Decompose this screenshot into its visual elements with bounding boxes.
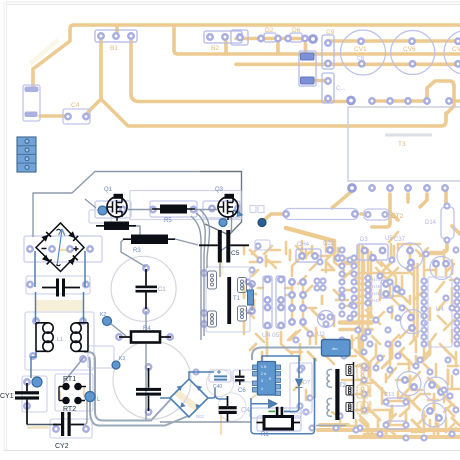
connector B2 pads	[207, 34, 212, 39]
svg-text:H47: H47	[372, 298, 381, 303]
wire trace B2 stub	[224, 42, 228, 54]
svg-text:T3: T3	[398, 141, 406, 148]
svg-text:U3: U3	[317, 332, 325, 338]
svg-text:D7: D7	[303, 380, 310, 386]
capacitor footprint circle big lower	[113, 341, 191, 419]
svg-text:2 d: 2 d	[261, 372, 266, 376]
wire dense extra weave D	[244, 246, 334, 400]
wire trace y101 long left	[131, 38, 345, 102]
svg-text:D3: D3	[360, 237, 368, 243]
wire blue L1 bottom left	[31, 351, 36, 378]
thermistor RT1 RT2 dots	[62, 383, 82, 405]
capacitor footprint circle faint C4	[218, 393, 246, 421]
thermistor RT wires	[59, 387, 86, 401]
transistor Q3	[218, 194, 238, 220]
svg-text:L1: L1	[57, 337, 63, 343]
wire blue Q3 select marks	[233, 210, 241, 215]
resistor R1	[257, 417, 301, 430]
bridge B01 footprint band	[24, 236, 102, 262]
svg-text:C6: C6	[238, 388, 246, 394]
transformer T1 winding boxes	[208, 271, 247, 327]
pad single square footprint	[231, 30, 248, 45]
wire trace CT2 link	[361, 214, 398, 220]
connector CH4 pads	[299, 253, 304, 258]
wash pale yellow B02 center	[176, 392, 198, 409]
svg-text:R1: R1	[261, 432, 269, 438]
svg-text:CH4: CH4	[297, 242, 310, 248]
resistor R2	[96, 222, 136, 231]
transformer T3 body outline	[348, 107, 460, 181]
wire bundle Q to T1 sweep1	[196, 213, 205, 336]
svg-text:CY1: CY1	[0, 393, 14, 400]
wire dense pad column stubs	[340, 258, 354, 340]
wash pale yellow top-left diagonal	[30, 40, 58, 64]
wire trace fork to C4	[87, 99, 101, 116]
wire blue T2 vertical	[314, 358, 316, 398]
resistor RV1 long outline	[284, 209, 358, 220]
capacitor CY1 footprint	[22, 376, 47, 412]
svg-text:U4 05: U4 05	[262, 332, 280, 339]
wire Q3 bottom to V	[231, 215, 233, 233]
wire C2 to lower area	[145, 311, 147, 420]
svg-text:CV1: CV1	[354, 46, 367, 53]
svg-text:3: 3	[261, 379, 263, 383]
wire dense extra weave I	[250, 250, 342, 360]
resistor R3	[123, 235, 175, 245]
wire dense extra weave B	[336, 246, 438, 432]
wire pale CY2 underline	[28, 426, 48, 428]
wire K2 diagonal	[110, 323, 126, 336]
wire trace y42.5 through CV tops	[329, 39, 460, 43]
footprint outline B02 region	[290, 363, 312, 413]
wire dense lower horizontals	[318, 425, 460, 437]
wire dense CH4 cluster	[302, 241, 338, 258]
capacitor C32 pads	[327, 247, 332, 252]
resistor R5	[152, 205, 195, 214]
svg-text:C13: C13	[384, 392, 394, 398]
wire trace T3 pin verticals	[372, 188, 446, 227]
page border left	[4, 2, 7, 451]
IC U5 pads column	[366, 276, 371, 281]
wire trace elbow down to pad row	[427, 81, 454, 114]
wire bundle Q3 down	[219, 237, 229, 253]
capacitor CV6 outline circle	[391, 31, 435, 75]
transistor circle footprint right	[430, 257, 453, 280]
capacitor C1 pads	[143, 265, 148, 270]
svg-text:CV5: CV5	[452, 46, 460, 53]
capacitor CY1	[15, 383, 39, 425]
wire trace diode row y38.5	[236, 37, 316, 41]
IC U3 circle	[318, 311, 335, 328]
capacitor C10 pads	[27, 282, 32, 287]
capacitor footprint circle faint C40	[207, 370, 234, 397]
capacitor C4 outline	[63, 109, 90, 124]
resistor R4	[119, 332, 171, 343]
svg-text:1 N: 1 N	[261, 365, 267, 369]
svg-text:Q3: Q3	[215, 187, 224, 193]
svg-text:D14: D14	[425, 220, 437, 226]
capacitor CV5 outline circle	[444, 31, 460, 75]
svg-text:4: 4	[261, 387, 263, 391]
IC U4 left pad column	[422, 279, 427, 284]
connector J1 blue block	[17, 137, 36, 172]
IC U6 body	[253, 362, 281, 396]
wire trace RV left feed	[263, 214, 285, 221]
resistor R4 pads	[116, 334, 121, 339]
svg-text:Q1: Q1	[104, 187, 113, 193]
svg-text:B2: B2	[211, 45, 219, 52]
wire dense C37 vertical	[389, 232, 460, 280]
footprint mid pads	[381, 280, 393, 298]
wire trace C4 link	[40, 114, 66, 118]
capacitor C4 pads	[65, 114, 70, 119]
transformer T2 left coils	[327, 370, 332, 417]
transformer L1 footprint	[25, 312, 94, 370]
transistor circle footprint low1	[397, 372, 421, 396]
capacitor C2	[136, 368, 161, 411]
capacitor footprint circle big upper	[111, 256, 176, 321]
wire schematic boundary left	[33, 172, 200, 238]
fuse F1 end caps	[25, 87, 39, 93]
svg-text:C32: C32	[323, 241, 335, 247]
pads near B02	[194, 370, 199, 375]
resistor footprint low	[385, 421, 407, 429]
footprint outline Q3 region	[203, 201, 240, 218]
connector B1 pads	[98, 33, 103, 38]
svg-text:CT2: CT2	[391, 213, 404, 220]
wire dense right of U4	[436, 260, 457, 345]
IC U4 outline	[428, 277, 452, 347]
svg-text:U5: U5	[385, 236, 393, 242]
wire blue bridge B01 arrow	[57, 229, 65, 266]
capacitor C9 outline	[322, 35, 334, 69]
bridge B01 pads	[27, 246, 32, 251]
wire dense left DIP verticals	[359, 246, 363, 348]
transformer T1 footprint	[206, 267, 250, 332]
resistor footprint C13	[385, 398, 407, 406]
wire trace RV right diag to big pad	[332, 191, 352, 208]
footprint outline K3 region	[88, 346, 114, 368]
svg-text:T2: T2	[339, 383, 347, 389]
inductor L1 left coil	[36, 323, 53, 352]
wire trace big bundle into dense area	[286, 228, 334, 252]
capacitor C40 blue plates	[214, 376, 227, 379]
wire blue C3 right	[284, 410, 290, 412]
IC U4 right pad column	[455, 279, 460, 284]
svg-text:C4: C4	[241, 407, 250, 414]
wash pale yellow L1 top	[35, 300, 83, 311]
wire thick L1 to B02 lower	[89, 357, 188, 426]
wire dense extra weave E	[244, 242, 334, 342]
inductor L1 right coil	[71, 323, 88, 352]
wire trace pad row y101 right	[372, 99, 460, 103]
thermistor RT footprint	[55, 374, 93, 411]
wire blue diode down to C3	[284, 388, 299, 412]
capacitor CY2 footprint	[50, 419, 92, 438]
wire dense staircase diagonals	[371, 252, 410, 318]
capacitor C6	[235, 370, 245, 385]
svg-text:C1: C1	[158, 287, 166, 293]
capacitor C10	[42, 279, 80, 297]
wire dense mid matrix links	[286, 258, 316, 322]
wire R3 to C1	[121, 239, 146, 267]
capacitor CV6 pads	[409, 39, 414, 44]
svg-text:D2: D2	[265, 27, 274, 34]
transistor circle footprint low3	[422, 403, 446, 427]
wire blue into amp	[251, 396, 315, 434]
capacitor C4 schematic	[219, 396, 237, 422]
wash pale yellow under C5	[219, 252, 224, 276]
capacitor CT2 outline	[364, 209, 389, 220]
mounting pad large	[348, 97, 355, 104]
relay K4 blue pads	[301, 53, 315, 60]
wire dense left DIP horizontals	[340, 320, 372, 325]
node K3 blue dot	[112, 361, 120, 369]
capacitor CY1 pads	[24, 379, 29, 384]
transformer T3 top pad row	[369, 98, 374, 103]
diode D14 pads	[445, 204, 450, 209]
bridge rectifier B01	[36, 223, 84, 272]
transistor Q1	[107, 194, 127, 221]
connector B2 outline	[204, 31, 242, 43]
transistor circle footprint low2	[424, 377, 448, 401]
svg-text:B1: B1	[110, 45, 118, 52]
svg-text:CV6: CV6	[403, 46, 416, 53]
wire blue bridge left down	[34, 251, 36, 287]
wire long bottom	[160, 421, 251, 423]
transformer T1 core bar	[227, 277, 231, 324]
wire bundle Q to T1 sweep2	[200, 210, 210, 268]
footprint outline R5 region	[150, 201, 197, 217]
pad blue rect right of T1	[248, 290, 254, 305]
transistor Q1 pad right	[120, 207, 125, 212]
capacitor C37 pads	[407, 248, 412, 253]
svg-text:K3: K3	[119, 356, 125, 362]
scattered pads right block	[315, 279, 320, 284]
wire thick D7 link	[252, 348, 322, 361]
node K2 blue dot	[103, 317, 112, 326]
transformer T2 core bar	[335, 369, 339, 420]
diode amp blue right	[269, 400, 278, 409]
diode D7 blue box	[322, 340, 351, 357]
wire trace B1 pad down long	[99, 38, 103, 99]
svg-text:RT2: RT2	[63, 406, 76, 413]
wire trace B1 stub up	[115, 25, 119, 36]
svg-text:U4: U4	[436, 307, 444, 313]
capacitor CT2 pads	[366, 212, 371, 217]
wire R2 leads	[96, 226, 140, 236]
node L blue dot	[85, 392, 95, 402]
svg-text:H45: H45	[372, 284, 381, 289]
wire pale trace bridge area	[60, 250, 262, 398]
capacitor C3	[276, 407, 283, 417]
wire Q1 pads link	[85, 199, 117, 221]
capacitor CY2	[53, 412, 84, 436]
transformer T3 bottom pad row	[349, 185, 356, 192]
wire CY area dark	[27, 424, 57, 426]
capacitor C5	[199, 230, 249, 263]
svg-text:CY2: CY2	[55, 443, 69, 450]
transformer L1 pads	[33, 318, 38, 323]
svg-text:CN: CN	[357, 56, 365, 62]
svg-text:C40: C40	[213, 384, 222, 390]
relay K4 outline	[299, 51, 316, 86]
wire trace net1 top-left	[33, 25, 460, 86]
node dense dot	[258, 219, 266, 227]
wire trace D14 down	[447, 226, 460, 250]
transformer T2 right bracket	[353, 362, 355, 419]
wire dense horizontals upper	[340, 244, 446, 273]
wire R5 to Q3	[195, 209, 217, 211]
svg-text:C9: C9	[326, 29, 335, 36]
bridge B02 blue diamond	[170, 379, 208, 417]
wire RT to L1 diagonal	[63, 357, 84, 383]
svg-text:5: 5	[269, 377, 271, 381]
diode D6 outline	[290, 33, 302, 42]
wire dense area verticals	[384, 244, 418, 344]
capacitor C40 polarity	[217, 370, 221, 374]
footprint small pair near Q3	[250, 206, 256, 213]
diode D2 pads	[258, 36, 263, 41]
transformer T2 orange ghost windings	[357, 364, 368, 414]
footprint vertical pair left	[263, 276, 272, 328]
svg-text:C5: C5	[231, 250, 240, 257]
svg-text:R5: R5	[164, 218, 172, 224]
capacitor C37 outline circle	[397, 243, 423, 269]
wire trace y64.3 long	[236, 63, 460, 67]
capacitor CV1 pads	[358, 39, 363, 44]
diode D14 outline	[441, 207, 454, 239]
wire green net	[269, 410, 276, 412]
wire blue B02 top	[189, 372, 214, 379]
page border bottom	[4, 450, 460, 452]
wire trace K relay stub	[306, 44, 328, 81]
capacitor C10 footprint	[26, 276, 90, 294]
footprint outline C3 R1 region	[250, 408, 301, 418]
footprint outline Q1 lower	[89, 210, 111, 223]
node K1 blue dot	[32, 377, 42, 387]
wire dense U5 stubs	[356, 250, 368, 410]
capacitor C1	[136, 269, 158, 309]
wire blue C10 to L1 left	[35, 292, 37, 322]
transformer T3 inner bar	[385, 134, 432, 137]
footprint outlines near C40 C6	[209, 370, 231, 382]
svg-text:RT1: RT1	[63, 376, 76, 383]
connector B1 outline	[95, 30, 137, 42]
capacitor CV1 outline circle	[341, 30, 386, 75]
wire CY2 to L dot	[74, 401, 87, 425]
capacitor C9 pads	[325, 40, 330, 45]
wire dense extra weave C	[328, 336, 458, 436]
transistor Q3 pads	[209, 206, 214, 211]
footprint outline Q1 region	[95, 201, 131, 218]
capacitor C8 pads	[325, 78, 330, 83]
wire blue C10 to L1 right	[83, 292, 85, 322]
capacitor C8 outline	[322, 73, 334, 103]
pad Q1 blue dot	[98, 206, 107, 215]
wire thick L1 to B02 upper	[84, 352, 171, 421]
transformer T2 right winding boxes	[346, 365, 354, 412]
wire dense diagonals	[348, 290, 454, 360]
wire dense extra weave F	[344, 244, 452, 342]
wire blue B02 right to C4	[208, 388, 227, 399]
footprint outline long R5-Q3 band	[130, 191, 241, 220]
resistor R5 pads	[150, 207, 155, 212]
wire R3 right to C5	[175, 239, 198, 245]
connector CH4 outline	[296, 249, 321, 262]
diode D6 pads	[285, 36, 290, 41]
wire gray bottom to T2	[316, 425, 346, 427]
pad matrix center	[289, 279, 294, 284]
resistor RV1 pads	[283, 211, 288, 216]
node Q3 source dot	[219, 219, 227, 227]
wire bundle Q to T1 sweep3	[191, 216, 201, 340]
svg-text:C4: C4	[71, 102, 80, 109]
svg-text:R4: R4	[143, 326, 151, 332]
wire trace y54 horizontal	[174, 28, 460, 54]
wire T1 right links	[246, 284, 252, 313]
wire dense extra weave H	[355, 344, 460, 434]
capacitor CY2 pads	[53, 426, 58, 431]
transistor circle footprint mid	[401, 310, 425, 334]
diode D blue down	[296, 379, 303, 388]
wire dense U4 left col feed	[416, 250, 424, 360]
svg-text:K2: K2	[100, 312, 106, 318]
svg-text:R3: R3	[133, 248, 141, 254]
diode D3 pads	[362, 248, 367, 253]
wire pale RT area	[60, 388, 84, 398]
wire trace pale T2 footprint	[369, 368, 372, 412]
svg-text:H46: H46	[372, 291, 381, 296]
component Q3 selected outline	[200, 172, 242, 236]
wire pale trace under C2	[220, 414, 222, 434]
svg-text:D6: D6	[292, 27, 301, 34]
page border top	[6, 2, 460, 5]
capacitor CV5 pads	[455, 39, 460, 44]
svg-text:C37: C37	[394, 237, 406, 243]
capacitor C2 pads	[146, 364, 151, 369]
wire trace C4 to long horizontal y126	[101, 99, 446, 126]
wire blue U6 top	[262, 356, 299, 378]
wire dense bottom cluster verticals	[267, 326, 446, 430]
capacitor C5 right pad box	[255, 240, 270, 250]
wire blue bridge right down	[84, 251, 86, 287]
svg-text:B02: B02	[196, 414, 205, 419]
svg-text:T1: T1	[233, 296, 241, 302]
diode D2 outline	[264, 33, 276, 42]
wire blue B02 left	[160, 397, 170, 399]
wire dense extra weave G	[346, 374, 454, 438]
transformer T1 pads	[201, 270, 206, 275]
fuse F1 outline	[23, 85, 40, 121]
wire Q1 to R5	[128, 209, 152, 211]
diode D3 outline	[357, 244, 388, 260]
pad large single	[310, 36, 317, 43]
wire trace D2 stub down	[276, 40, 280, 54]
svg-text:H44: H44	[372, 277, 381, 282]
wire dense lower connects	[290, 328, 460, 438]
svg-text:4m: 4m	[332, 346, 338, 351]
wire dense extra weave A	[326, 248, 452, 330]
wire C5 to T1	[219, 263, 221, 277]
svg-text:C...: C...	[336, 86, 346, 92]
